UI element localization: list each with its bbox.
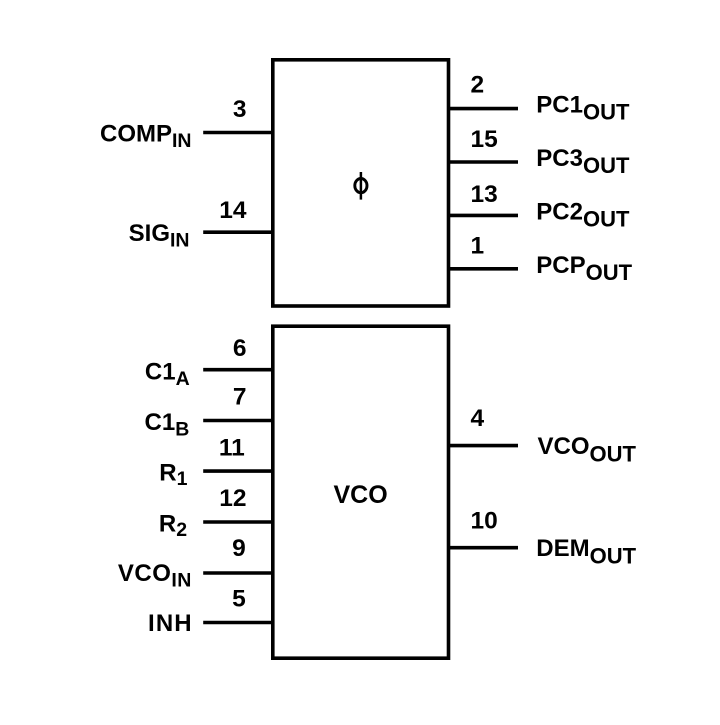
pin number 14 <box>219 197 247 224</box>
pin number 15 <box>471 126 498 153</box>
pin number 4 <box>471 405 485 432</box>
svg-text:1: 1 <box>471 233 485 260</box>
wire pin 3 <box>203 131 273 135</box>
pin number 11 <box>219 434 245 461</box>
node VCO_OUT <box>538 433 637 467</box>
node COMP_IN <box>100 120 192 152</box>
svg-text:COMPIN: COMPIN <box>100 120 192 152</box>
node C1_A <box>145 359 190 391</box>
pin number 1 <box>471 233 485 260</box>
svg-text:PC2OUT: PC2OUT <box>536 199 630 232</box>
node PC1_OUT <box>536 91 630 124</box>
node PCP_OUT <box>536 252 632 285</box>
VCO block U2 <box>273 326 449 658</box>
wire pin 1 <box>448 267 518 271</box>
pin number 3 <box>233 96 247 123</box>
svg-text:INH: INH <box>148 610 193 637</box>
wire pin 12 <box>203 520 273 524</box>
node PC2_OUT <box>536 199 630 232</box>
svg-text:PC3OUT: PC3OUT <box>536 145 630 178</box>
svg-text:9: 9 <box>232 535 246 562</box>
svg-text:VCOIN: VCOIN <box>118 560 192 592</box>
wire pin 14 <box>203 230 273 234</box>
wire pin 10 <box>448 546 518 550</box>
svg-text:5: 5 <box>232 585 246 612</box>
node C1_B <box>145 409 190 441</box>
wire pin 6 <box>203 368 273 372</box>
svg-text:DEMOUT: DEMOUT <box>536 535 636 569</box>
svg-text:11: 11 <box>219 434 245 461</box>
VCO block label <box>334 481 388 509</box>
svg-text:6: 6 <box>233 335 247 362</box>
node R_1 <box>159 459 187 490</box>
node INH <box>148 610 193 637</box>
svg-text:C1A: C1A <box>145 359 190 391</box>
wire pin 5 <box>203 621 273 625</box>
pin number 10 <box>471 508 498 535</box>
wire pin 7 <box>203 419 273 423</box>
node PC3_OUT <box>536 145 630 178</box>
svg-text:3: 3 <box>233 96 247 123</box>
node DEM_OUT <box>536 535 636 569</box>
pin number 6 <box>233 335 247 362</box>
node R_2 <box>159 510 187 541</box>
wire pin 11 <box>203 469 273 473</box>
svg-text:R1: R1 <box>159 459 187 490</box>
svg-text:2: 2 <box>471 72 485 99</box>
pin number 12 <box>219 485 246 512</box>
pin number 7 <box>233 383 247 410</box>
node VCO_IN <box>118 560 192 592</box>
wire pin 15 <box>448 160 518 164</box>
phi symbol (phase comparator) <box>355 172 367 200</box>
svg-text:SIGIN: SIGIN <box>129 220 190 252</box>
pin number 5 <box>232 585 246 612</box>
wire pin 4 <box>448 444 518 448</box>
pin number 9 <box>232 535 246 562</box>
svg-text:13: 13 <box>471 181 498 208</box>
svg-text:12: 12 <box>219 485 246 512</box>
node SIG_IN <box>129 220 190 252</box>
svg-text:R2: R2 <box>159 510 187 541</box>
svg-text:VCO: VCO <box>334 481 388 509</box>
wire pin 2 <box>448 107 518 111</box>
svg-text:VCOOUT: VCOOUT <box>538 433 637 467</box>
svg-text:7: 7 <box>233 383 247 410</box>
pin number 2 <box>471 72 485 99</box>
svg-text:15: 15 <box>471 126 498 153</box>
pin number 13 <box>471 181 498 208</box>
svg-text:4: 4 <box>471 405 485 432</box>
svg-text:10: 10 <box>471 508 498 535</box>
svg-text:PCPOUT: PCPOUT <box>536 252 632 285</box>
wire pin 13 <box>448 214 518 218</box>
svg-text:C1B: C1B <box>145 409 190 441</box>
phase comparator block U1 <box>273 60 449 306</box>
svg-text:PC1OUT: PC1OUT <box>536 91 630 124</box>
wire pin 9 <box>203 571 273 575</box>
svg-text:14: 14 <box>219 197 247 224</box>
